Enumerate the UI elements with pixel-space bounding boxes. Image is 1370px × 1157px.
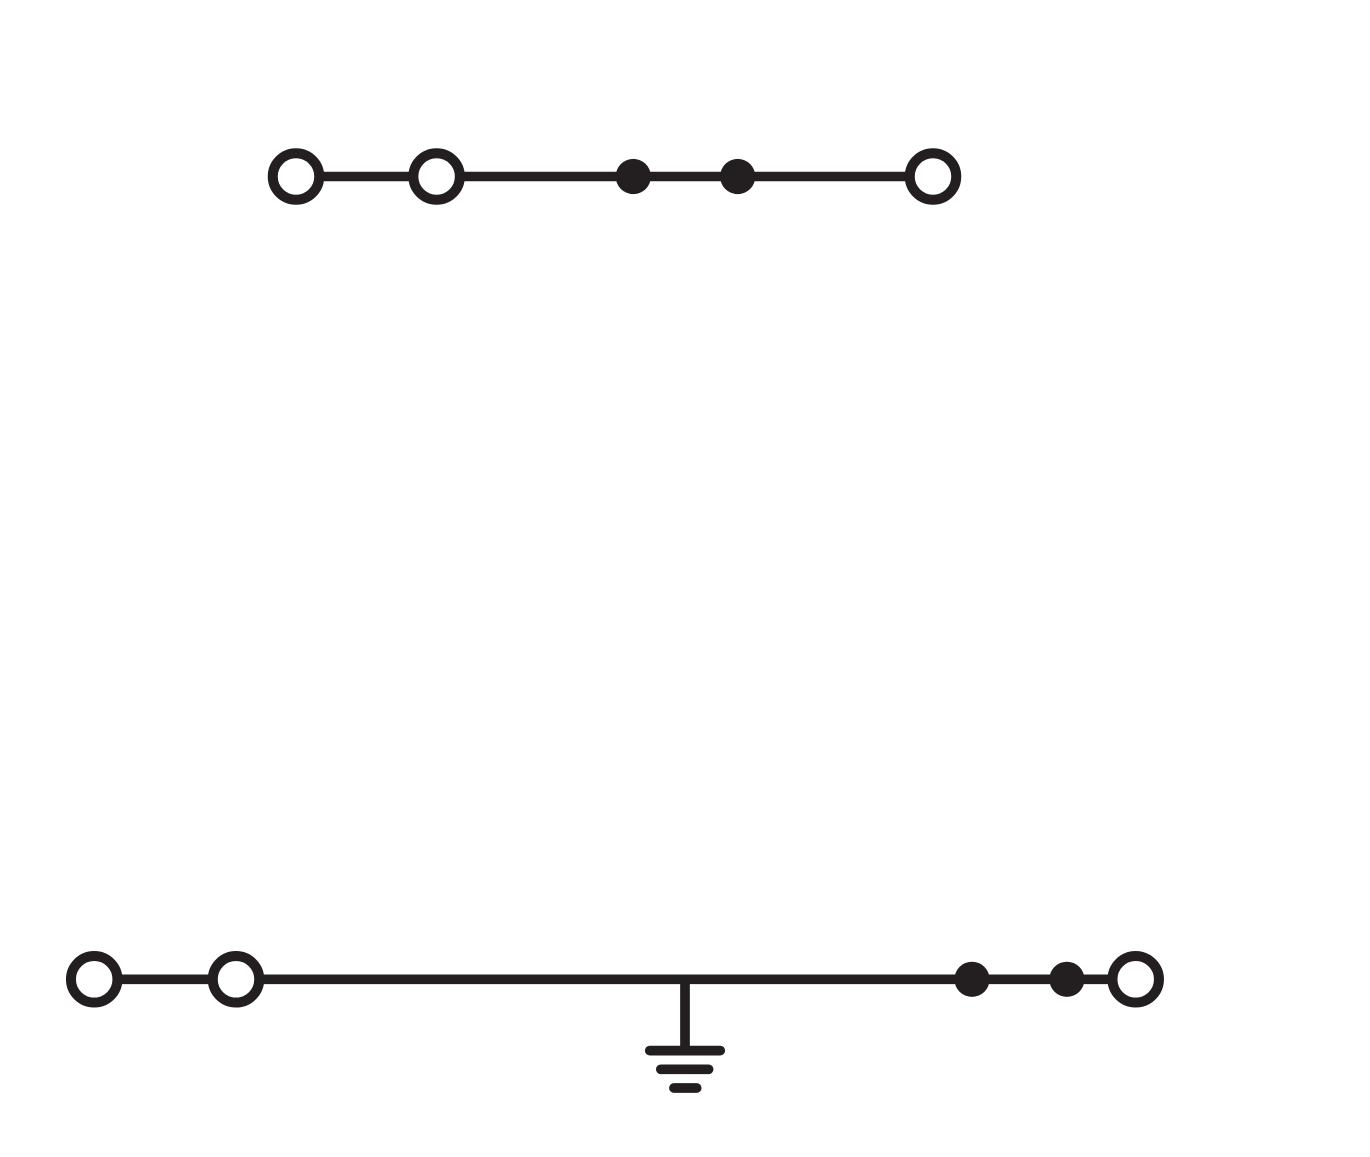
terminal clamp point 5 (bottom second open circle) [213,956,260,1003]
terminal clamp point 1 (top left open circle) [273,153,320,200]
terminal clamp point 4 (bottom left open circle) [71,956,118,1003]
jumper contact dot 4 (bottom row) [1049,962,1084,997]
jumper contact dot 1 (top row) [616,159,651,194]
wire: top conductor L segment (clamp 1 to clamp 2) [296,172,437,182]
wire: top conductor segment through jumper contacts (clamp 2 to clamp 3) [437,172,933,182]
wire: bottom PE conductor long segment (clamp 5 to clamp 6) [236,974,1136,984]
jumper contact dot 2 (top row) [720,159,755,194]
ground (earth symbol, three bars) [650,1051,721,1088]
wire: ground tap vertical segment [680,979,690,1050]
terminal clamp point 2 (top middle open circle) [413,153,460,200]
terminal clamp point 3 (top right open circle) [910,153,957,200]
terminal clamp point 6 (bottom right open circle) [1112,956,1159,1003]
wire: bottom PE conductor segment (clamp 4 to clamp 5) [94,974,236,984]
jumper contact dot 3 (bottom row) [954,962,989,997]
